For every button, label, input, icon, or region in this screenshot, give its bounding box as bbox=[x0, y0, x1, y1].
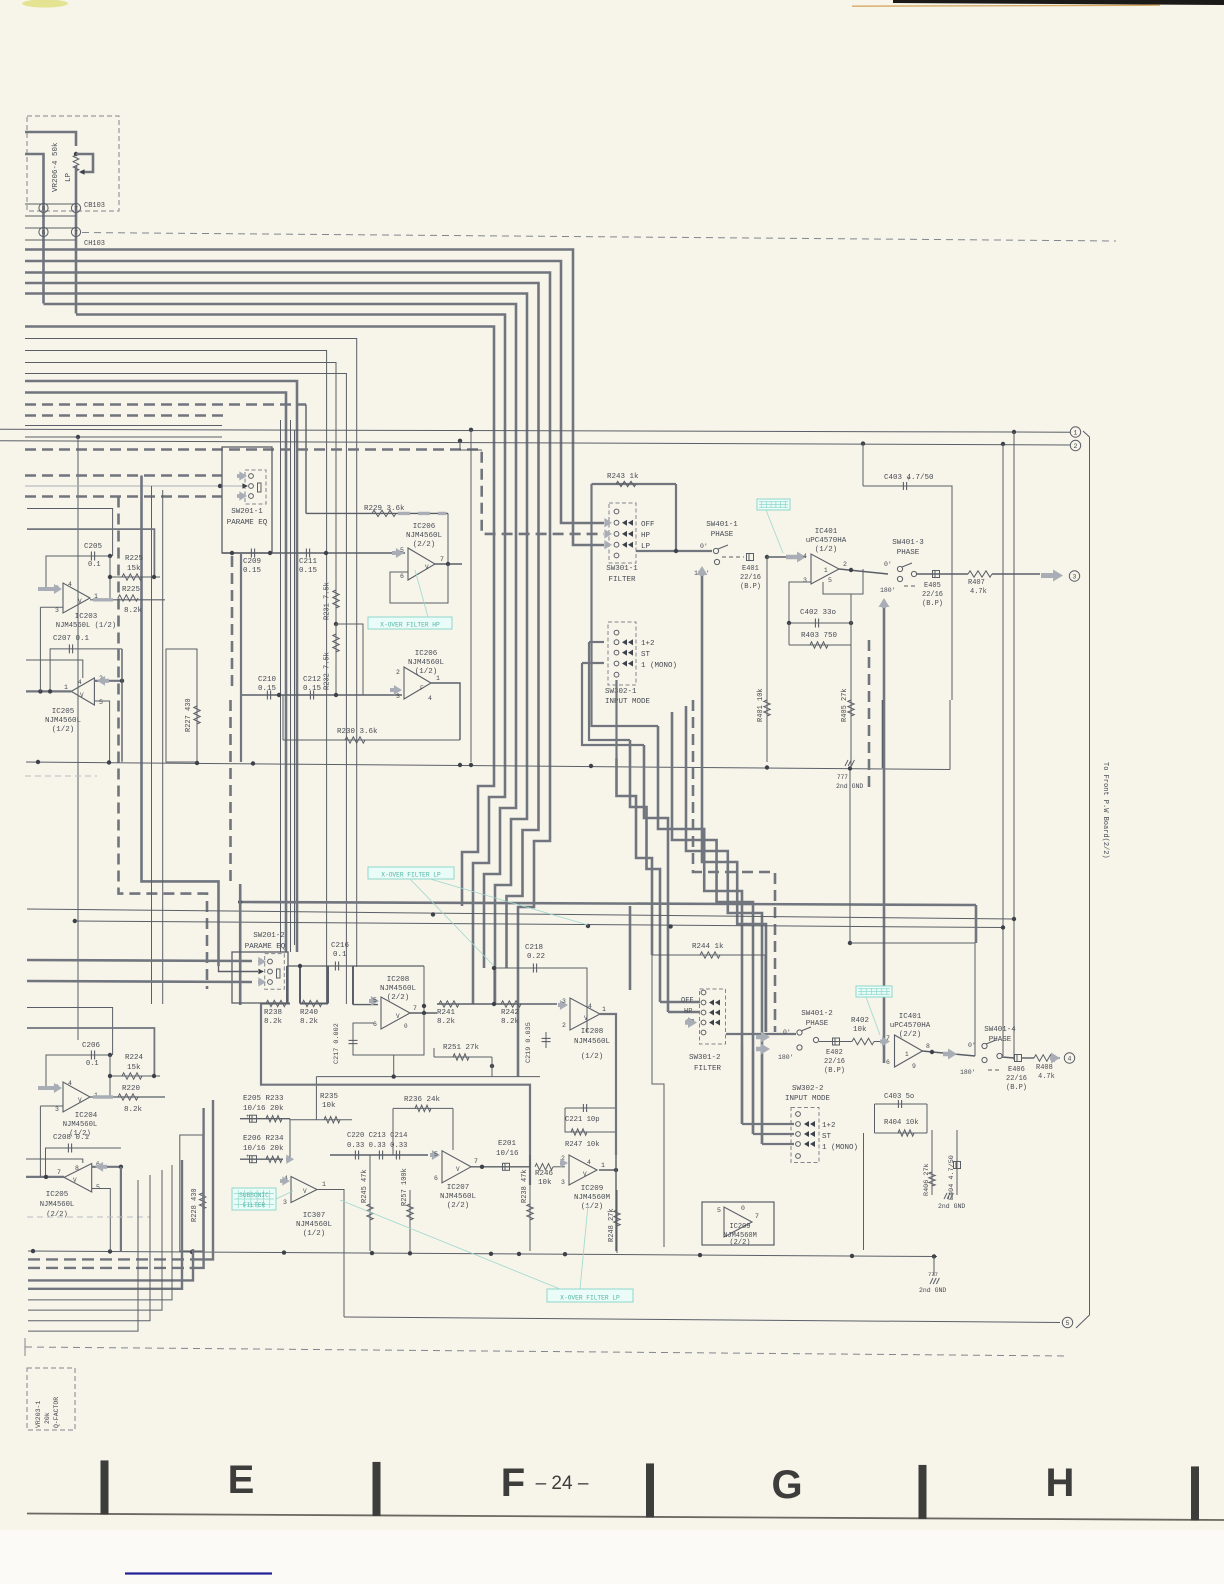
wire up-arrow vertical x884 bbox=[883, 600, 886, 1063]
ground 2nd GND ch1 bbox=[845, 760, 848, 766]
svg-text:10k: 10k bbox=[538, 1179, 552, 1187]
svg-text:1: 1 bbox=[602, 1006, 606, 1013]
wire knot dashed a bbox=[693, 700, 775, 1032]
wire cross feed c bbox=[974, 943, 976, 1056]
svg-text:C216: C216 bbox=[331, 942, 350, 950]
wire x240 column bbox=[239, 884, 242, 1005]
svg-text:IC205: IC205 bbox=[46, 1191, 69, 1199]
svg-text:OFF: OFF bbox=[681, 997, 694, 1005]
svg-text:R243 1k: R243 1k bbox=[607, 473, 639, 481]
wire x241 drop bbox=[240, 553, 242, 762]
potentiometer VR203-1 dashed box bbox=[27, 1368, 75, 1430]
wire dashed drop to SW201-2 left bbox=[119, 497, 208, 990]
svg-text:7: 7 bbox=[74, 230, 78, 237]
switch SW302-2 contacts bbox=[796, 1112, 801, 1117]
arrow into SW301-2 LP bbox=[685, 1017, 697, 1028]
wire VR206 lower to CB103 bbox=[25, 154, 44, 304]
wire knot stub row3 bbox=[668, 1011, 700, 1014]
svg-text:+: + bbox=[246, 1153, 250, 1160]
wire vertical x471 bbox=[470, 430, 472, 762]
svg-text:R240: R240 bbox=[300, 1009, 319, 1017]
wire IC205A output bbox=[26, 690, 71, 692]
svg-text:6: 6 bbox=[373, 1021, 377, 1028]
op-amp IC203 bbox=[63, 583, 90, 613]
svg-text:(1/2): (1/2) bbox=[815, 546, 838, 554]
svg-text:E402: E402 bbox=[826, 1049, 843, 1057]
resistor R401 10k bbox=[766, 557, 768, 762]
connector CH103 pin 6 bbox=[39, 227, 48, 236]
switch SW201-2 box bbox=[232, 952, 288, 1003]
wire IC307 out bbox=[317, 1190, 344, 1318]
resistor R236 24k bbox=[393, 1107, 453, 1109]
wire thin vertical xc bbox=[294, 430, 296, 945]
svg-text:NJM4560L: NJM4560L bbox=[574, 1038, 611, 1046]
wire phase common dashes bbox=[722, 556, 744, 558]
op-amp IC206 A bbox=[408, 548, 435, 580]
arrow to output 3 bbox=[1041, 569, 1063, 581]
svg-text:E401: E401 bbox=[742, 565, 759, 573]
capacitor C205 loop bbox=[46, 556, 110, 587]
wire feed to R224 node bbox=[27, 1028, 154, 1078]
wire x616 to rail bbox=[615, 1155, 617, 1251]
svg-text:V: V bbox=[456, 1166, 460, 1173]
wire dashed line 16 bbox=[25, 414, 225, 417]
svg-text:0.33 0.33 0.33: 0.33 0.33 0.33 bbox=[347, 1142, 407, 1150]
wire R236 legs bbox=[392, 1108, 394, 1155]
svg-text:15k: 15k bbox=[127, 565, 141, 573]
op-amp IC204 bbox=[63, 1082, 90, 1112]
resistor R224 15k bbox=[110, 1075, 160, 1077]
wire IC208A out bbox=[410, 1012, 437, 1014]
svg-text:9: 9 bbox=[912, 1063, 916, 1070]
svg-text:2: 2 bbox=[1074, 443, 1078, 450]
svg-text:X-OVER FILTER LP: X-OVER FILTER LP bbox=[381, 872, 441, 879]
svg-text:IC205: IC205 bbox=[52, 708, 75, 716]
svg-text:(2/2): (2/2) bbox=[447, 1202, 470, 1210]
ground rail channel 2 bbox=[28, 1251, 937, 1257]
switch SW401-3 phase bbox=[897, 566, 902, 571]
svg-text:FILTER: FILTER bbox=[608, 576, 636, 584]
terminal output 5 bbox=[1062, 1317, 1072, 1327]
capacitor C213 bbox=[378, 1151, 380, 1160]
svg-text:180': 180' bbox=[960, 1069, 976, 1076]
svg-text:5: 5 bbox=[1066, 1320, 1070, 1327]
resistor R233 bbox=[266, 1116, 282, 1122]
resistor R257 100k bbox=[409, 1190, 411, 1251]
node rail1 x471 bbox=[469, 428, 473, 432]
op-amp IC206 B bbox=[404, 667, 431, 699]
svg-text:C207 0.1: C207 0.1 bbox=[53, 635, 90, 643]
switch SW201-1 contact a bbox=[249, 474, 254, 479]
resistor R406 27k bbox=[931, 1130, 933, 1195]
arrow to output 4 bbox=[1050, 1053, 1060, 1064]
svg-text:8.2k: 8.2k bbox=[124, 607, 143, 615]
svg-text:5: 5 bbox=[400, 547, 404, 554]
wire eq2 top line bbox=[287, 965, 424, 967]
resistor R407 4.7k bbox=[968, 571, 992, 577]
wire thin line 11 bbox=[25, 363, 336, 554]
wire SW201-1 output line bbox=[222, 552, 405, 554]
wire thick line 14 bbox=[25, 393, 286, 953]
capacitor C221 loop bbox=[565, 1108, 616, 1132]
svg-text:R246: R246 bbox=[535, 1170, 554, 1178]
svg-text:SW201-1: SW201-1 bbox=[231, 508, 263, 516]
wire IC209A vertical bbox=[615, 1100, 617, 1155]
wire cross feed a bbox=[849, 770, 851, 943]
svg-text:V: V bbox=[303, 1188, 307, 1195]
arrow SW201-2 c bbox=[258, 977, 266, 986]
wire IC205A right column bbox=[121, 649, 123, 762]
svg-text:V: V bbox=[425, 564, 429, 571]
wire R244 legs bbox=[652, 955, 664, 1247]
terminal output 4 bbox=[1064, 1053, 1074, 1063]
wire IC208B out bbox=[600, 1014, 616, 1100]
switch SW201-2 contact c bbox=[268, 980, 273, 985]
svg-text:R228 430: R228 430 bbox=[191, 1188, 199, 1222]
svg-text:E201: E201 bbox=[498, 1140, 517, 1148]
wire IC207 out bbox=[471, 1166, 530, 1168]
svg-text:4.7k: 4.7k bbox=[970, 588, 987, 596]
wire mid thin line bbox=[316, 1076, 540, 1078]
connector CB103 pin 7 bbox=[71, 203, 80, 212]
svg-text:5: 5 bbox=[828, 577, 832, 584]
op-amp IC208 B bbox=[570, 998, 600, 1030]
svg-text:4: 4 bbox=[68, 1080, 72, 1087]
wire dashed SW201-1 feed lower bbox=[25, 495, 222, 498]
wire R251 legs bbox=[433, 1048, 435, 1057]
node rail2 x863 bbox=[861, 441, 865, 445]
node rail ch2 bbox=[431, 912, 435, 916]
resistor R228 430 loop bbox=[180, 1135, 203, 1251]
svg-text:IC206: IC206 bbox=[413, 523, 436, 531]
svg-text:5: 5 bbox=[717, 1207, 721, 1214]
resistor R246 10k bbox=[535, 1164, 553, 1170]
svg-text:0.15: 0.15 bbox=[258, 685, 277, 693]
op-amp IC205 B bbox=[64, 1164, 92, 1193]
node C205 bbox=[108, 554, 112, 558]
wire up-arrow vertical x702 bbox=[701, 568, 704, 830]
svg-text:3: 3 bbox=[1073, 574, 1077, 581]
svg-text:R231 7.5k: R231 7.5k bbox=[324, 582, 332, 620]
resistor R231 7.5k bbox=[335, 553, 337, 624]
svg-text:HP: HP bbox=[684, 1008, 692, 1016]
svg-text:10k: 10k bbox=[322, 1102, 336, 1110]
svg-text:8: 8 bbox=[75, 1165, 79, 1172]
capacitor C220 bbox=[354, 1151, 356, 1160]
signal overlay IC204 out bbox=[93, 1095, 113, 1098]
svg-text:IC207: IC207 bbox=[447, 1184, 470, 1192]
svg-text:8.2k: 8.2k bbox=[300, 1018, 319, 1026]
svg-text:PHASE: PHASE bbox=[711, 531, 734, 539]
svg-text:8.2k: 8.2k bbox=[124, 1106, 143, 1114]
svg-text:SW401-2: SW401-2 bbox=[801, 1010, 833, 1018]
arrow into SW301-1 row3 bbox=[604, 529, 612, 538]
wire knot stub row2 bbox=[660, 1001, 700, 1004]
switch SW301-2 dashed box bbox=[700, 989, 726, 1044]
wire nest line 7 bbox=[28, 1175, 150, 1321]
svg-text:NJM4560L: NJM4560L bbox=[408, 659, 445, 667]
switch SW301-1 contacts bbox=[614, 509, 619, 514]
switch SW302-1 contacts bbox=[614, 630, 619, 635]
svg-text:IC307: IC307 bbox=[303, 1212, 326, 1220]
switch SW201-1 box bbox=[222, 447, 272, 553]
svg-text:CB103: CB103 bbox=[84, 202, 105, 210]
resistor R241 8.2k bbox=[439, 1001, 459, 1007]
node IC209A out bbox=[614, 1168, 618, 1172]
arrow into IC207 bbox=[430, 1150, 440, 1160]
resistor R405 27k bbox=[850, 594, 852, 768]
svg-text:E206 R234: E206 R234 bbox=[243, 1135, 284, 1143]
svg-text:0: 0 bbox=[741, 1205, 745, 1212]
switch SW301-1 dashed box bbox=[609, 503, 636, 563]
svg-text:R235: R235 bbox=[320, 1093, 339, 1101]
svg-text:IC209: IC209 bbox=[581, 1185, 604, 1193]
arrow E206 bbox=[286, 1155, 294, 1164]
wire pot column down bbox=[75, 166, 78, 314]
wire thin drop x151 bbox=[151, 486, 153, 1004]
svg-text:IC208: IC208 bbox=[387, 976, 410, 984]
svg-text:PHASE: PHASE bbox=[806, 1020, 829, 1028]
svg-text:8: 8 bbox=[42, 206, 46, 213]
wire tall rect right bbox=[881, 700, 883, 768]
wire SW401-4 to E406 bbox=[1002, 1057, 1014, 1058]
wire bus line 1 to SW301-1 LP bbox=[25, 250, 604, 546]
arrow into IC205B bbox=[95, 1162, 107, 1172]
wire thin rail ch2 b bbox=[75, 921, 1003, 928]
svg-text:(2/2): (2/2) bbox=[413, 541, 436, 549]
svg-text:2: 2 bbox=[562, 1022, 566, 1029]
svg-text:5: 5 bbox=[373, 997, 377, 1004]
arrow into IC206B bbox=[390, 685, 402, 695]
svg-text:0: 0 bbox=[404, 1023, 408, 1030]
svg-text:(1/2): (1/2) bbox=[52, 726, 75, 734]
svg-text:VR206-4 50k: VR206-4 50k bbox=[52, 142, 60, 192]
switch SW302-2 dashed box bbox=[791, 1108, 819, 1163]
wire knot line 2 bbox=[630, 740, 660, 1002]
schematic bottom border to output 5 bbox=[344, 1317, 1060, 1323]
svg-text:V: V bbox=[78, 598, 82, 605]
resistor R238 8.2k bbox=[266, 1000, 286, 1006]
svg-text:(1/2): (1/2) bbox=[581, 1203, 604, 1211]
wire knot line 6 bbox=[686, 706, 762, 1144]
wire lower eq line bbox=[241, 694, 402, 696]
wire vertical x863 to C403 bbox=[862, 444, 864, 486]
faint dashed ch2 bbox=[27, 1216, 150, 1218]
resistor R230 3.6k bbox=[283, 739, 460, 741]
blue mark bottom bbox=[125, 1572, 272, 1574]
wire thin line 12 bbox=[25, 374, 346, 1005]
svg-text:FILTER: FILTER bbox=[243, 1202, 266, 1209]
svg-text:PARAME EQ: PARAME EQ bbox=[245, 943, 286, 951]
node mid feed bbox=[218, 484, 222, 488]
right border bbox=[1076, 431, 1090, 1328]
wire nest line 8 bbox=[28, 1180, 138, 1331]
cyan label X-OVER FILTER HP bbox=[368, 617, 452, 629]
svg-text:22/16: 22/16 bbox=[1006, 1075, 1027, 1083]
svg-text:SW302-1: SW302-1 bbox=[605, 688, 637, 696]
svg-text:ST: ST bbox=[822, 1133, 832, 1141]
svg-text:1+2: 1+2 bbox=[822, 1122, 836, 1130]
svg-text:3: 3 bbox=[803, 577, 807, 584]
resistor R227 430 loop bbox=[166, 649, 197, 762]
svg-text:7: 7 bbox=[57, 1169, 61, 1176]
svg-text:LP: LP bbox=[641, 543, 651, 551]
wire IC208A feedback bbox=[353, 1014, 424, 1056]
resistor R245 47k bbox=[369, 1155, 371, 1251]
svg-text:7: 7 bbox=[440, 556, 444, 563]
svg-text:R232 7.5k: R232 7.5k bbox=[324, 652, 332, 690]
svg-text:5: 5 bbox=[434, 1151, 438, 1158]
svg-text:To Front P.W Board(2/2): To Front P.W Board(2/2) bbox=[1101, 762, 1109, 859]
svg-text:6: 6 bbox=[400, 573, 404, 580]
capacitor C219 0.035 bbox=[542, 1037, 551, 1039]
arrow after IC401B bbox=[943, 1049, 957, 1060]
wire phase4 dashes bbox=[988, 1069, 1002, 1071]
svg-text:R230 3.6k: R230 3.6k bbox=[337, 728, 378, 736]
svg-text:(2/2): (2/2) bbox=[46, 1211, 68, 1219]
resistor R239 47k bbox=[529, 1155, 531, 1251]
wire IC204 pin3 feedback bbox=[39, 1106, 41, 1177]
dashed separator line bbox=[25, 1347, 1067, 1356]
ruler tick 5 bbox=[1191, 1466, 1199, 1520]
wire thin line 10 bbox=[25, 351, 327, 1005]
svg-text:R406 27k: R406 27k bbox=[923, 1163, 931, 1196]
svg-text:SW201-2: SW201-2 bbox=[253, 932, 285, 940]
svg-text:4: 4 bbox=[803, 553, 807, 560]
wire dashed SW201-1 feed upper bbox=[25, 474, 222, 477]
svg-text:SW401-1: SW401-1 bbox=[706, 521, 738, 529]
capacitor C209 bbox=[250, 549, 252, 558]
wire thin drop x163 bbox=[162, 490, 164, 1004]
wire bus line 7 bbox=[76, 315, 505, 1005]
arrow into IC208A bbox=[369, 996, 379, 1006]
wire nest line 5 bbox=[28, 1165, 172, 1300]
wire IC205B input from right bbox=[92, 1166, 121, 1168]
resistor R235 10k bbox=[290, 1119, 352, 1121]
svg-text:IC203: IC203 bbox=[75, 613, 98, 621]
svg-text:1: 1 bbox=[436, 675, 440, 682]
svg-text:E: E bbox=[228, 1458, 255, 1502]
wire big U left bbox=[261, 1004, 530, 1186]
wire rail to output 2 bbox=[0, 441, 1070, 445]
wire thin SW201-1 mid feed bbox=[25, 485, 245, 487]
svg-text:R247 10k: R247 10k bbox=[565, 1141, 600, 1149]
wire R232 branch bbox=[336, 624, 363, 695]
svg-text:6: 6 bbox=[42, 230, 46, 237]
capacitor E206 bbox=[250, 1156, 257, 1163]
faint dashed mark bbox=[25, 775, 97, 777]
switch SW401-2 phase bbox=[797, 1030, 802, 1035]
wire ch2 spine end drop bbox=[975, 905, 978, 943]
wire R240 right riser bbox=[327, 966, 329, 1004]
arrow into IC205A bbox=[97, 676, 109, 686]
svg-text:3: 3 bbox=[283, 1199, 287, 1206]
svg-text:R238: R238 bbox=[264, 1009, 282, 1017]
wire C220 line bbox=[330, 1154, 428, 1156]
svg-text:(1/2): (1/2) bbox=[415, 668, 438, 676]
switch SW201-1 slider bbox=[258, 483, 262, 492]
svg-text:1: 1 bbox=[64, 684, 68, 691]
wire dashed line to SW301-1 HP bbox=[25, 450, 604, 534]
wire knot line 1 bbox=[617, 758, 653, 955]
wire SW201-2 feed lower bbox=[27, 981, 252, 982]
arrow into SW201-1 a bbox=[237, 471, 247, 480]
cyan leader lower a bbox=[340, 1200, 560, 1289]
resistor R402 10k bbox=[819, 1041, 852, 1043]
wire thin vertical xa bbox=[280, 420, 282, 952]
svg-text:SW302-2: SW302-2 bbox=[792, 1085, 824, 1093]
node cross feed bbox=[848, 941, 852, 945]
capacitor E405 bbox=[933, 571, 940, 578]
svg-text:7: 7 bbox=[74, 206, 78, 213]
wire ch2 spine drop bbox=[629, 906, 632, 990]
svg-text:C209: C209 bbox=[243, 558, 261, 566]
svg-text:CH103: CH103 bbox=[84, 240, 105, 248]
wire filter2 common bbox=[726, 1033, 796, 1035]
svg-text:NJM4560L (1/2): NJM4560L (1/2) bbox=[56, 622, 116, 630]
ruler tick 2 bbox=[373, 1462, 381, 1516]
arrow into IC209A bbox=[560, 1158, 568, 1167]
wire IC205B output bbox=[26, 1176, 64, 1178]
wire IC401A out bbox=[839, 569, 888, 574]
wire phase3 dashes bbox=[904, 585, 918, 587]
svg-text:NJM4560L: NJM4560L bbox=[40, 1201, 75, 1209]
svg-text:(2/2): (2/2) bbox=[729, 1239, 750, 1247]
resistor R234 bbox=[266, 1156, 282, 1162]
svg-text:R238 47k: R238 47k bbox=[521, 1169, 529, 1203]
wire IC206A output bbox=[435, 563, 462, 565]
op-amp IC401 B bbox=[895, 1035, 923, 1067]
svg-text:1: 1 bbox=[824, 567, 828, 574]
svg-text:INPUT MODE: INPUT MODE bbox=[785, 1095, 831, 1103]
wire pin5 line bbox=[353, 1004, 378, 1006]
ruler baseline bbox=[27, 1514, 1224, 1521]
wire IC209A output bbox=[599, 1169, 616, 1171]
wire thin line 9 bbox=[25, 339, 357, 968]
wire knot line 4 bbox=[658, 726, 742, 1124]
svg-text:SW401-4: SW401-4 bbox=[984, 1026, 1016, 1034]
svg-text:R224: R224 bbox=[125, 1054, 144, 1062]
cyan label LOW BOOST ch2 bbox=[856, 986, 892, 997]
svg-text:E406: E406 bbox=[1008, 1066, 1025, 1074]
svg-text:(2/2): (2/2) bbox=[387, 994, 410, 1002]
arrow into SW301-1 row2 bbox=[604, 518, 612, 527]
capacitor C208 loop bbox=[46, 1148, 121, 1177]
svg-text:0.15: 0.15 bbox=[243, 567, 262, 575]
wire C403 legs ch2 bbox=[926, 1104, 928, 1133]
wire knot line 3 bbox=[644, 745, 668, 1012]
wire bus line 5 bbox=[25, 294, 527, 1005]
svg-text:10/16 20k: 10/16 20k bbox=[243, 1105, 284, 1113]
svg-text:uPC4570HA: uPC4570HA bbox=[806, 537, 847, 545]
wire x218 arrow drop bbox=[219, 966, 259, 972]
svg-text:Q-FACTOR: Q-FACTOR bbox=[53, 1397, 60, 1428]
capacitor C214 bbox=[395, 1151, 397, 1160]
svg-text:(1/2): (1/2) bbox=[581, 1053, 604, 1061]
svg-text:6: 6 bbox=[434, 1175, 438, 1182]
wire SW302-1 feeds bbox=[589, 641, 604, 643]
arrow into SW301-1 row4 bbox=[604, 540, 612, 549]
switch SW401-4 phase bbox=[982, 1043, 987, 1048]
wire E206 line bbox=[240, 1158, 283, 1160]
svg-text:NJM4560L: NJM4560L bbox=[63, 1121, 98, 1129]
svg-text:180': 180' bbox=[778, 1054, 794, 1061]
svg-text:777: 777 bbox=[928, 1271, 938, 1278]
dashed board boundary line bbox=[82, 233, 1116, 242]
svg-text:777: 777 bbox=[837, 774, 848, 781]
svg-text:LP: LP bbox=[65, 172, 73, 182]
svg-text:3: 3 bbox=[562, 998, 566, 1005]
